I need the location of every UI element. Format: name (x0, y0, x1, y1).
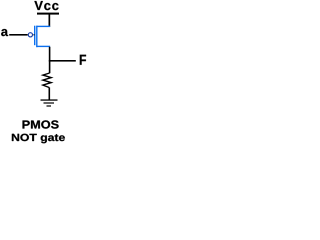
ground top bar (41, 99, 58, 100)
transistor Q1 PMOS drain lead (36, 46, 50, 47)
caption line 1 PMOS (23, 121, 30, 129)
label F (80, 55, 86, 65)
label a (1, 29, 8, 36)
resistor R1 zigzag (43, 73, 51, 88)
wire resistor to ground (49, 87, 51, 100)
power rail Vcc bar (37, 13, 59, 15)
transistor Q1 PMOS gate bar (34, 26, 35, 46)
wire drain to node F (49, 47, 51, 73)
transistor Q1 PMOS source lead (36, 26, 50, 27)
ground bottom bar (47, 105, 52, 106)
transistor Q1 PMOS channel bar (36, 26, 37, 48)
wire node to output F (49, 60, 76, 62)
wire Vcc stem (49, 15, 51, 27)
caption line 2 NOT gate (12, 134, 19, 141)
label Vcc (34, 1, 42, 10)
ground middle bar (44, 102, 55, 103)
gate bubble junction dot (33, 34, 34, 35)
transistor Q1 gate bubble (28, 33, 32, 37)
wire input a (9, 34, 28, 36)
